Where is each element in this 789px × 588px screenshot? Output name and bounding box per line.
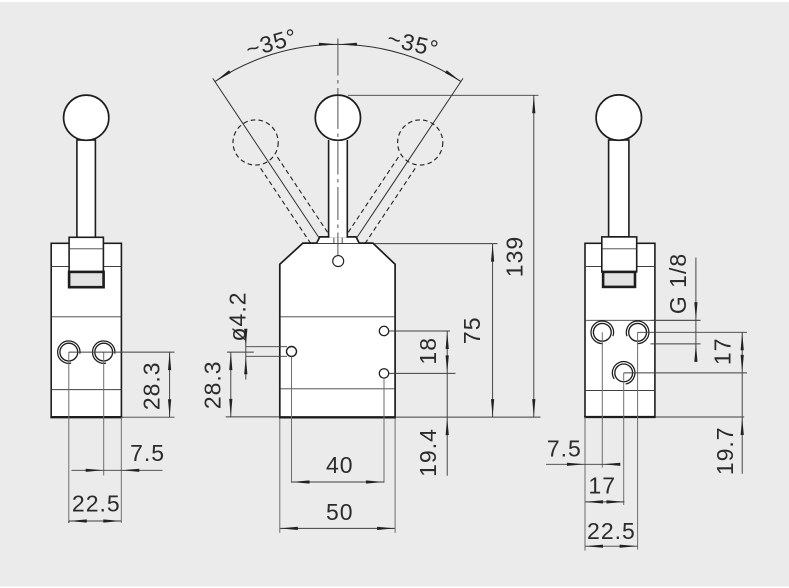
svg-text:17: 17 [588,473,616,499]
svg-text:17: 17 [710,338,736,366]
svg-text:40: 40 [326,452,354,478]
svg-text:75: 75 [459,317,485,345]
svg-text:19.7: 19.7 [712,426,738,475]
svg-text:50: 50 [326,499,354,525]
svg-text:22.5: 22.5 [72,490,121,516]
svg-text:7.5: 7.5 [547,435,582,461]
svg-text:28.3: 28.3 [200,360,226,409]
svg-text:7.5: 7.5 [130,440,165,466]
svg-text:28.3: 28.3 [138,361,164,410]
svg-text:G 1/8: G 1/8 [665,253,691,314]
svg-text:ø4.2: ø4.2 [224,291,250,341]
svg-text:22.5: 22.5 [587,518,636,544]
svg-text:139: 139 [501,236,527,277]
svg-text:18: 18 [415,337,441,365]
svg-text:19.4: 19.4 [415,428,441,477]
